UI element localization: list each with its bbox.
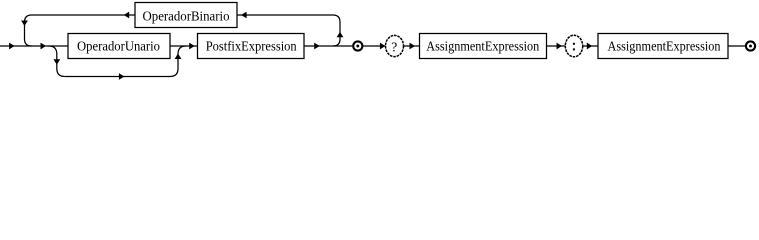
- svg-text:AssignmentExpression: AssignmentExpression: [608, 39, 721, 54]
- svg-text:?: ?: [391, 40, 397, 55]
- svg-text:AssignmentExpression: AssignmentExpression: [426, 39, 539, 54]
- svg-text:OperadorUnario: OperadorUnario: [77, 39, 160, 54]
- svg-text:PostfixExpression: PostfixExpression: [206, 39, 297, 54]
- svg-text:OperadorBinario: OperadorBinario: [143, 9, 230, 24]
